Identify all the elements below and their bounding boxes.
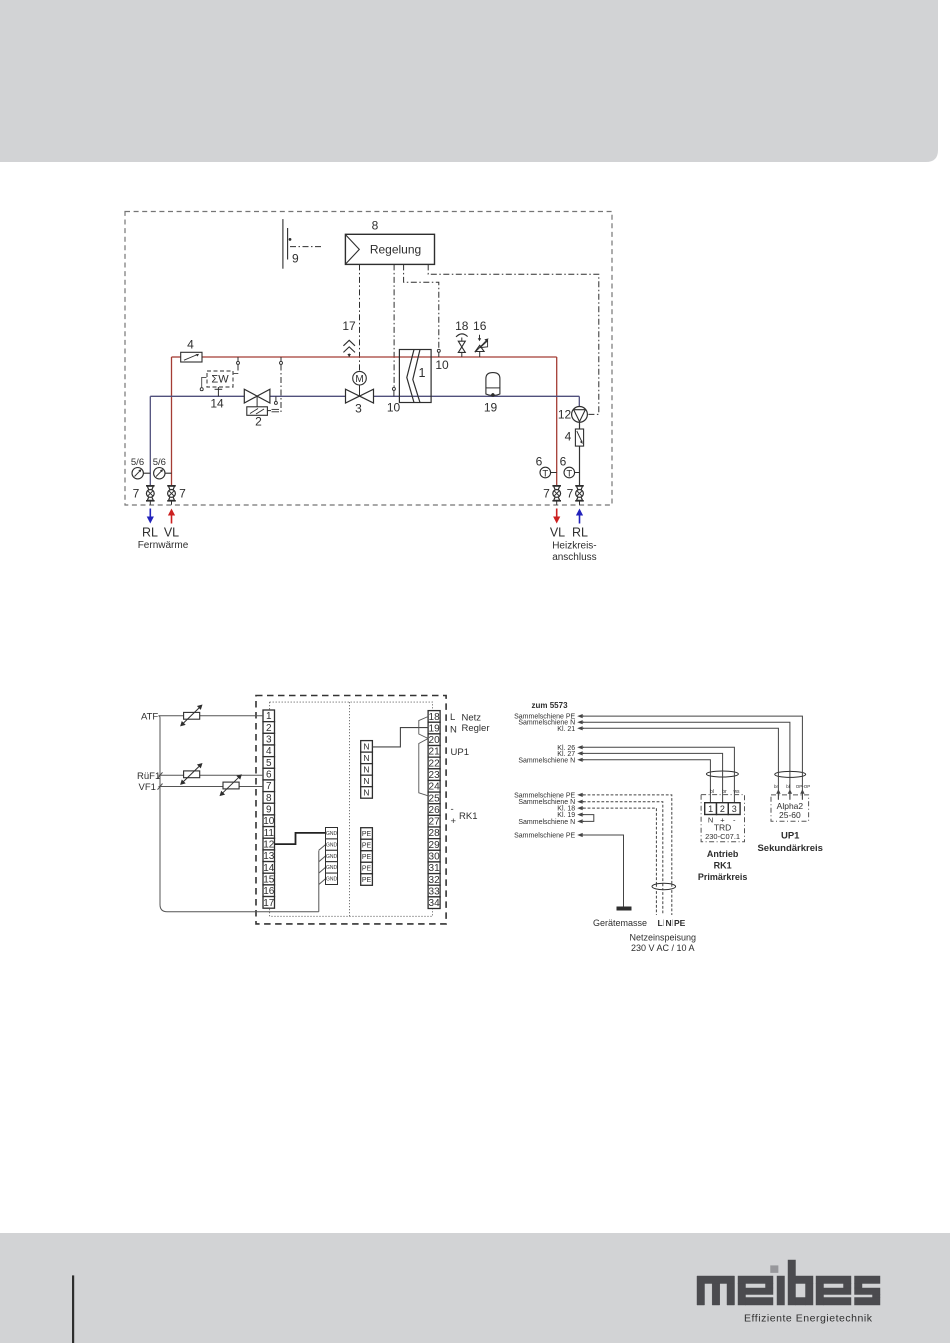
svg-text:5/6: 5/6 [131,457,144,468]
svg-text:bl: bl [710,789,714,795]
svg-text:6: 6 [560,455,567,469]
svg-text:5: 5 [266,758,272,769]
svg-text:N: N [363,787,369,797]
svg-text:N: N [363,753,369,763]
svg-text:30: 30 [429,852,441,863]
svg-text:25-60: 25-60 [779,810,801,820]
svg-text:11: 11 [264,828,275,839]
svg-text:PE: PE [362,866,372,873]
svg-text:GND: GND [326,854,338,860]
svg-text:Sammelschiene N: Sammelschiene N [518,819,575,826]
svg-text:GND: GND [326,831,338,837]
svg-text:9: 9 [266,805,272,816]
svg-text:RK1: RK1 [714,861,732,871]
svg-text:33: 33 [429,886,441,897]
svg-text:Sammelschiene N: Sammelschiene N [518,757,575,764]
svg-text:VF1: VF1 [139,782,156,793]
svg-text:20: 20 [429,735,441,746]
svg-text:10: 10 [435,358,449,372]
svg-text:22: 22 [429,758,441,769]
svg-text:24: 24 [429,782,441,793]
svg-text:Regelung: Regelung [370,243,421,257]
svg-text:14: 14 [263,863,275,874]
svg-text:Heizkreis-: Heizkreis- [552,541,596,552]
svg-text:4: 4 [565,430,572,444]
svg-text:5/6: 5/6 [153,457,166,468]
svg-text:2: 2 [255,415,262,429]
svg-text:GND: GND [326,842,338,848]
svg-text:17: 17 [263,898,275,909]
svg-text:br: br [722,789,727,795]
svg-text:N: N [666,918,672,928]
svg-text:bl: bl [786,784,790,789]
svg-text:230-C07.1: 230-C07.1 [705,832,740,841]
svg-text:OP-OP: OP-OP [796,784,811,789]
svg-text:Fernwärme: Fernwärme [138,540,189,551]
svg-text:19: 19 [484,401,498,415]
svg-text:18: 18 [429,712,441,723]
svg-text:T: T [542,468,548,479]
svg-text:4: 4 [187,338,194,352]
svg-text:VL: VL [164,526,179,540]
svg-text:7: 7 [567,486,574,500]
svg-text:7: 7 [543,486,550,500]
svg-text:23: 23 [429,770,441,781]
svg-text:12: 12 [558,408,572,422]
svg-text:15: 15 [263,874,275,885]
svg-text:anschluss: anschluss [552,552,596,563]
svg-text:2: 2 [266,723,272,734]
svg-text:12: 12 [263,839,275,850]
svg-text:-: - [733,816,736,825]
svg-text:Gerätemasse: Gerätemasse [593,918,647,928]
svg-text:PE: PE [362,877,372,884]
svg-text:GND: GND [326,877,338,883]
svg-text:zum 5573: zum 5573 [532,701,569,710]
svg-text:2: 2 [720,804,725,814]
svg-text:32: 32 [429,875,441,886]
svg-text:PE: PE [674,918,686,928]
svg-text:7: 7 [266,781,272,792]
svg-text:21: 21 [429,747,441,758]
svg-text:7: 7 [133,486,140,500]
svg-text:L: L [658,918,663,928]
svg-text:ws: ws [733,789,740,795]
svg-text:28: 28 [429,828,441,839]
svg-text:26: 26 [429,805,441,816]
svg-text:29: 29 [429,840,441,851]
svg-text:3: 3 [732,804,737,814]
svg-text:RL: RL [142,526,158,540]
svg-text:1: 1 [419,366,426,380]
svg-text:3: 3 [266,735,272,746]
svg-text:ATF: ATF [141,711,158,722]
svg-text:31: 31 [429,863,441,874]
svg-text:N: N [450,725,457,736]
svg-text:br: br [774,784,779,789]
svg-text:GND: GND [326,865,338,871]
svg-text:4: 4 [266,746,272,757]
svg-text:N: N [363,764,369,774]
svg-text:25: 25 [429,793,441,804]
svg-text:Antrieb: Antrieb [707,849,739,859]
svg-text:13: 13 [263,851,275,862]
svg-text:10: 10 [387,401,401,415]
svg-text:PE: PE [362,854,372,861]
svg-text:+: + [451,816,457,827]
svg-text:RüF1: RüF1 [137,771,160,782]
svg-text:10: 10 [263,816,275,827]
svg-text:N: N [708,816,713,825]
svg-text:Sekundärkreis: Sekundärkreis [757,843,822,854]
svg-text:UP1: UP1 [451,747,469,758]
svg-text:Netz: Netz [462,713,482,724]
svg-text:3: 3 [355,402,362,416]
svg-text:T: T [566,468,572,479]
svg-text:VL: VL [550,526,565,540]
svg-text:Primärkreis: Primärkreis [698,872,748,882]
svg-text:16: 16 [263,886,275,897]
svg-text:16: 16 [473,319,487,333]
svg-text:Netzeinspeisung: Netzeinspeisung [630,933,697,943]
svg-text:9: 9 [292,252,299,266]
svg-text:18: 18 [455,319,469,333]
svg-text:6: 6 [266,770,272,781]
svg-text:RK1: RK1 [459,811,477,822]
svg-text:230 V AC / 10 A: 230 V AC / 10 A [631,943,695,953]
svg-text:UP1: UP1 [781,831,800,842]
svg-text:M: M [355,374,363,385]
svg-text:Sammelschiene PE: Sammelschiene PE [514,833,575,840]
svg-text:27: 27 [429,817,441,828]
svg-text:34: 34 [429,898,441,909]
svg-text:Kl. 21: Kl. 21 [557,726,575,733]
svg-text:N: N [363,776,369,786]
svg-text:1: 1 [266,711,272,722]
svg-text:ΣW: ΣW [211,374,229,386]
svg-text:17: 17 [342,319,356,333]
svg-text:19: 19 [429,723,441,734]
svg-text:RL: RL [572,526,588,540]
svg-text:-: - [451,804,454,815]
svg-text:6: 6 [536,455,543,469]
svg-text:14: 14 [210,397,224,411]
svg-text:7: 7 [179,486,186,500]
svg-text:PE: PE [362,831,372,838]
svg-text:8: 8 [266,793,272,804]
svg-text:N: N [363,741,369,751]
svg-text:1: 1 [708,804,713,814]
svg-text:Regler: Regler [462,723,490,734]
svg-text:PE: PE [362,843,372,850]
svg-text:L: L [450,712,455,723]
svg-text:Effiziente Energietechnik: Effiziente Energietechnik [744,1313,873,1325]
svg-text:8: 8 [372,219,379,233]
